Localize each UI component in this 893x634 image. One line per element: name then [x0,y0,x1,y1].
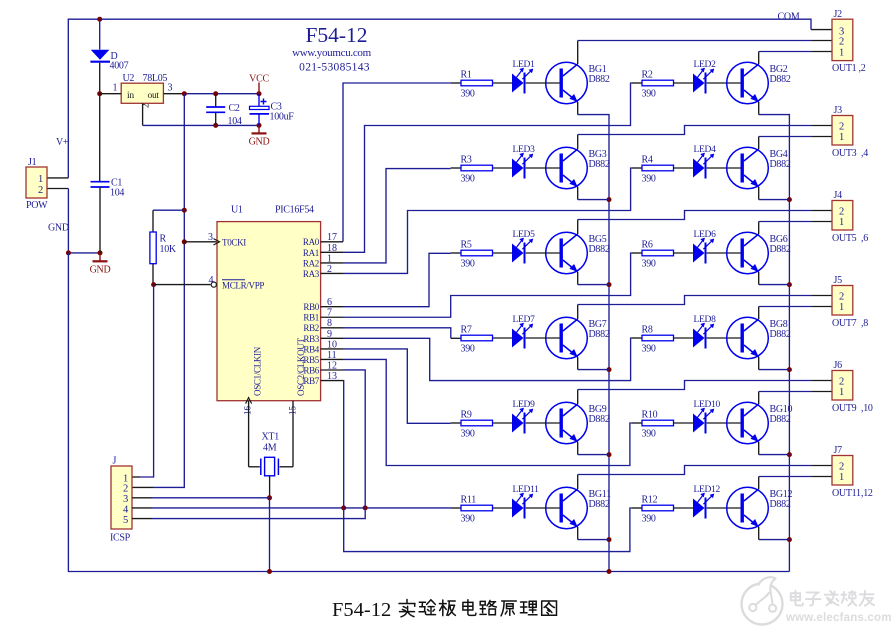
resistor R2 390 [642,70,674,100]
wire: BG4 emitter to bus [759,187,790,200]
node: right bus emitter junction row 6 [787,537,792,542]
svg-text:OUT7: OUT7 [832,318,857,329]
wire: BG1 emitter to bus [577,102,579,115]
svg-text:POW: POW [26,200,48,211]
capacitor C1 104 [91,178,125,199]
ground symbol (below C3) [249,125,270,147]
pin 9 RB3 [303,329,343,344]
wire: C1 bottom [99,187,101,253]
node: bottom rail crystal junction [267,569,272,574]
wire: BG3 emitter to bus [578,187,609,200]
svg-text:16: 16 [243,406,253,416]
LED11 [512,485,539,519]
svg-text:,10: ,10 [861,403,873,414]
node: GND junction left [66,250,71,255]
wire: channel 11 row [493,507,513,509]
wire: BG11 collector to J7 pin2 [578,466,832,490]
svg-text:LED12: LED12 [694,485,721,495]
svg-text:MCLR/VPP: MCLR/VPP [222,280,264,290]
LED1 [512,60,535,94]
svg-text:GND: GND [48,223,69,234]
wire: crystal junction down to bottom rail [269,498,271,572]
pin 13 RB7 [303,371,343,386]
svg-text:D882: D882 [770,74,791,85]
wire: BG2 emitter to bus [758,102,760,115]
transistor BG9 D882 [546,402,610,444]
node: T0CKI junction [182,239,187,244]
connector J6 OUT9,10 [832,360,873,414]
connector J4 OUT5,6 [832,190,868,244]
svg-text:3: 3 [168,83,173,94]
resistor R4 390 [642,155,674,185]
pin 7 RB1 [303,308,343,323]
node: left bus emitter junction row 5 [607,452,612,457]
svg-text:RB1: RB1 [303,313,319,323]
node: ICSP pin3 junction [267,495,272,500]
wire: channel 5 row [493,252,513,254]
wire: BG7 emitter to bus [578,357,609,370]
svg-text:F54-12: F54-12 [332,599,391,621]
wire: VCC vertical trunk to ICSP pin2 [132,94,184,488]
node: right bus emitter junction row 2 [787,197,792,202]
resistor R10 390 [642,410,674,440]
caption CJK char 路 [480,600,496,614]
power symbol VCC [249,74,269,94]
svg-text:,6: ,6 [861,233,868,244]
svg-text:LED10: LED10 [694,400,721,410]
wire: 78L05 pin3 to VCC rail [163,93,184,95]
svg-text:5: 5 [123,515,128,526]
caption CJK char 验 [419,600,435,615]
wire: channel 2 row [674,82,694,84]
LED2 [693,60,716,94]
svg-text:D882: D882 [770,499,791,510]
svg-text:ICSP: ICSP [110,533,131,544]
wire: left border GND down + bottom GND rail [68,253,789,572]
svg-text:,8: ,8 [861,318,868,329]
svg-text:R11: R11 [461,495,477,506]
wire: MCLR vertical to ICSP pin1 [132,285,154,477]
wire: channel 9 row [493,422,513,424]
caption CJK char 电 [463,600,476,616]
caption CJK char 图 [542,601,557,615]
wire: right emitter bus [759,115,790,572]
svg-text:LED8: LED8 [694,315,717,325]
watermark logo (elecfans) [742,577,783,624]
svg-text:www.elecfans.com: www.elecfans.com [785,612,892,624]
LED12 [693,485,721,519]
node: right bus emitter junction row 3 [787,282,792,287]
wire: RA2 to R3 [343,168,461,263]
crystal XT1 4M [249,432,293,476]
wire: BG12 emitter to bus [759,527,790,540]
wire: BG12 collector to J7 pin1 [759,477,832,490]
resistor R12 390 [642,495,674,525]
wire: RA3 to R4 [343,168,642,273]
svg-text:RA3: RA3 [303,269,320,279]
node: right bus emitter junction row 5 [787,452,792,457]
svg-text:D882: D882 [770,329,791,340]
transistor BG1 D882 [546,62,610,104]
wire: channel 8 row [674,337,694,339]
wire: channel 6 row [674,252,694,254]
svg-text:R9: R9 [461,410,472,421]
svg-text:D882: D882 [770,244,791,255]
caption CJK char 板 [439,600,455,616]
LED8 [693,315,716,349]
wire: channel 3 row [493,167,513,169]
transistor BG7 D882 [546,317,610,359]
wire: BG5 emitter to bus [578,272,609,285]
svg-text:78L05: 78L05 [143,73,168,84]
connector J ICSP [110,456,132,544]
svg-text:390: 390 [642,259,656,270]
wire: 78L05 pin2 down to GND rail [143,103,259,125]
svg-text:LED1: LED1 [513,60,536,70]
node: left bus emitter junction row 2 [607,197,612,202]
capacitor C2 104 [206,94,242,127]
resistor R9 390 [461,410,493,440]
svg-text:R2: R2 [642,70,653,81]
LED6 [693,230,716,264]
svg-text:LED4: LED4 [694,145,717,155]
wire: RB6 to ICSP pin5 [132,370,365,519]
wire: BG9 collector to J6 pin2 [578,381,832,405]
svg-text:D882: D882 [589,159,610,170]
svg-text:RA0: RA0 [303,237,320,247]
wire: ICSP pin3 to crystal [132,497,270,499]
wire: J1 pin1 to V+ rail [47,177,68,179]
wire: RA0 to R1 [343,83,461,242]
caption CJK char 理 [520,601,537,615]
svg-text:104: 104 [228,116,242,127]
LED3 [512,145,535,179]
wire: crystal to GND junction [269,476,271,498]
resistor R11 390 [461,495,493,525]
transistor BG10 D882 [727,402,793,444]
caption CJK char 原 [501,601,516,616]
wire: BG7 collector to J5 pin2 [578,296,832,320]
pin 1 RA2 [303,253,343,268]
node: R top junction [182,208,187,213]
resistor R8 390 [642,325,674,355]
svg-text:,12: ,12 [861,488,873,499]
LED10 [693,400,721,434]
svg-text:LED7: LED7 [513,315,536,325]
wire: channel 7 row [493,337,513,339]
svg-text:RB0: RB0 [303,302,319,312]
svg-text:OUT1: OUT1 [832,63,857,74]
wire: RB4 to R9 [343,349,461,423]
pin 11 RB5 [303,350,343,365]
wire: BG4 collector to J3 pin1 [759,137,832,150]
wire: channel 12 row [674,507,694,509]
svg-text:D882: D882 [770,159,791,170]
svg-text:390: 390 [461,259,475,270]
wire: BG8 emitter to bus [759,357,790,370]
svg-text:390: 390 [642,429,656,440]
svg-text:C2: C2 [229,103,240,114]
svg-text:PIC16F54: PIC16F54 [275,205,314,216]
svg-text:in: in [127,91,134,101]
wire: GND horizontal to C1 bottom [68,252,100,254]
svg-text:,4: ,4 [861,148,868,159]
node: 78L05 input junction [97,91,102,96]
svg-text:J5: J5 [834,275,843,286]
resistor R3 390 [461,155,493,185]
wire: RB7 to R12 [343,381,642,552]
wire: RB3 to R8 [343,338,642,381]
wire: BG6 collector to J4 pin1 [759,222,832,235]
pin 17 RA0 [303,232,343,247]
wire: BG5 collector to J4 pin2 [578,211,832,235]
wire: BG6 emitter to bus [759,272,790,285]
wire: BG10 emitter to bus [759,442,790,455]
svg-text:2: 2 [38,185,43,196]
transistor BG4 D882 [727,147,791,189]
LED4 [693,145,716,179]
wire: BG9 emitter to bus [578,442,609,455]
pin 18 RA1 [303,243,343,258]
svg-text:021-53085143: 021-53085143 [299,62,370,74]
LED9 [512,400,535,434]
svg-text:2: 2 [839,206,844,217]
transistor BG12 D882 [727,487,793,529]
svg-text:1: 1 [839,472,844,483]
wire: MCLR to chip [154,284,211,286]
svg-text:OUT9: OUT9 [832,403,857,414]
svg-text:390: 390 [461,514,475,525]
svg-text:D882: D882 [589,244,610,255]
svg-text:1: 1 [839,387,844,398]
svg-text:out: out [148,91,160,101]
svg-text:GND: GND [249,136,270,147]
svg-text:R5: R5 [461,240,472,251]
transistor BG2 D882 [727,62,791,104]
svg-text:J1: J1 [28,157,37,168]
wire: 78L05 pin1 [100,93,122,95]
node: V+ rail / diode junction [97,17,102,22]
svg-text:GND: GND [90,264,111,275]
wire: channel 4 row [674,167,694,169]
node: right bus emitter junction row 4 [787,367,792,372]
LED5 [512,230,535,264]
IC U1 PIC16F54 [208,205,321,401]
wire: ICSP pin4 row6 feed [132,507,461,509]
resistor R7 390 [461,325,493,355]
svg-text:T0CKI: T0CKI [222,237,246,247]
svg-text:1: 1 [123,473,128,484]
pin 16 OSC1/CLKIN [243,346,263,467]
svg-text:390: 390 [642,89,656,100]
svg-text:U1: U1 [231,205,243,216]
wire: top V+ rail [68,19,832,178]
svg-text:1: 1 [839,302,844,313]
wire: RB5 to R10 [343,359,642,465]
svg-text:D882: D882 [589,74,610,85]
wire: T0CKI to chip [184,241,217,243]
svg-text:3: 3 [123,494,128,505]
svg-text:2: 2 [839,291,844,302]
svg-text:OSC1/CLKIN: OSC1/CLKIN [253,346,263,396]
svg-text:OUT3: OUT3 [832,148,857,159]
svg-text:390: 390 [461,429,475,440]
watermark text 电子发烧友 [791,591,803,606]
svg-text:F54-12: F54-12 [305,23,367,47]
svg-text:2: 2 [123,484,128,495]
node: VCC rail junctions [182,91,262,96]
transistor BG3 D882 [546,147,610,189]
svg-text:390: 390 [461,174,475,185]
svg-text:R1: R1 [461,70,472,81]
svg-text:LED9: LED9 [513,400,536,410]
transistor BG6 D882 [727,232,791,274]
svg-text:R6: R6 [642,240,653,251]
svg-text:R8: R8 [642,325,653,336]
node: left bus emitter junction row 6 [607,537,612,542]
wire: J1 pin2 to GND net [47,189,68,253]
wire: BG2 collector to J2 pin1 [759,52,832,65]
pin 8 RB2 [303,318,343,333]
node: cap bottom junctions [213,123,261,128]
svg-text:LED2: LED2 [694,60,717,70]
svg-text:LED5: LED5 [513,230,536,240]
svg-text:RA2: RA2 [303,258,319,268]
wire: BG10 collector to J6 pin1 [759,392,832,405]
regulator U2 78L05 [113,73,173,108]
svg-text:R4: R4 [642,155,653,166]
diode D 4007 [90,19,128,94]
connector J2 OUT1,2 [832,9,866,74]
svg-text:D882: D882 [770,414,791,425]
node: MCLR junction [151,282,156,287]
LED7 [512,315,535,349]
svg-text:COM: COM [778,11,800,22]
svg-text:1: 1 [839,132,844,143]
wire: VCC rail [184,93,259,95]
svg-text:OUT11: OUT11 [832,488,861,499]
svg-text:V+: V+ [56,137,69,148]
transistor BG5 D882 [546,232,610,274]
pin 6 RB0 [303,297,343,312]
svg-text:1: 1 [38,174,43,185]
svg-text:390: 390 [461,89,475,100]
resistor R6 390 [642,240,674,270]
svg-text:R10: R10 [642,410,658,421]
wire: BG11 emitter to bus [578,527,609,540]
wire: BG3 collector to J3 pin2 [578,126,832,150]
pin 15 OSC2/CLKOUT [288,337,307,466]
connector J5 OUT7,8 [832,275,868,329]
svg-text:D882: D882 [589,414,610,425]
node: left bus emitter junction row 3 [607,282,612,287]
svg-text:LED11: LED11 [513,485,540,495]
svg-text:R3: R3 [461,155,472,166]
pin 10 RB4 [303,339,343,354]
svg-text:1: 1 [113,83,118,94]
svg-text:VCC: VCC [249,74,269,85]
svg-text:2: 2 [839,121,844,132]
svg-text:XT1: XT1 [262,432,280,443]
wire: RB2 to R7 [343,328,461,339]
connector J1 [26,157,48,211]
svg-text:RB2: RB2 [303,323,319,333]
pin 12 RB6 [303,360,343,375]
svg-text:3: 3 [208,232,213,243]
svg-text:390: 390 [642,174,656,185]
svg-text:OUT5: OUT5 [832,233,857,244]
svg-text:J6: J6 [834,360,843,371]
node: C1 bottom junction [98,250,103,255]
svg-text:J7: J7 [834,445,843,456]
node: bottom rail left bus junction [607,569,612,574]
svg-text:10K: 10K [160,244,177,255]
svg-text:390: 390 [461,344,475,355]
svg-text:J4: J4 [834,190,843,201]
svg-text:RA1: RA1 [303,248,319,258]
wire: RB1 to R6 [343,253,642,317]
svg-text:104: 104 [110,188,124,199]
ground symbol (below C1) [90,253,111,275]
wire: RA1 to R2 [343,83,642,252]
wire: BG1 collector to J2 pin2 [578,41,832,65]
svg-text:4M: 4M [263,443,277,454]
svg-text:1: 1 [839,47,844,58]
svg-text:LED6: LED6 [694,230,717,240]
svg-text:390: 390 [642,514,656,525]
wire: channel 1 row [493,82,513,84]
resistor R1 390 [461,70,493,100]
svg-text:D882: D882 [589,329,610,340]
svg-text:J: J [113,456,117,467]
wire: left emitter bus [578,115,609,572]
svg-text:2: 2 [839,376,844,387]
svg-text:LED3: LED3 [513,145,536,155]
transistor BG8 D882 [727,317,791,359]
transistor BG11 D882 [546,487,611,529]
node: RB7 junction on row6 wire [341,505,346,510]
capacitor C3 100uF (electrolytic) [250,94,295,126]
svg-text:4: 4 [209,275,214,286]
svg-text:R: R [160,234,167,245]
svg-text:J2: J2 [834,9,843,20]
svg-text:2: 2 [839,37,844,48]
svg-text:100uF: 100uF [270,112,295,123]
wire: RB0 to R5 [343,253,461,307]
svg-text:1: 1 [839,217,844,228]
svg-text:4007: 4007 [110,61,129,72]
pin 2 RA3 [303,264,343,279]
connector J3 OUT3,4 [832,105,868,159]
svg-text:R12: R12 [642,495,658,506]
wire: channel 10 row [674,422,694,424]
resistor R5 390 [461,240,493,270]
connector J7 OUT11,12 [832,445,873,499]
resistor R 10K (pull-up) [150,210,184,284]
wire: C1 top connection [99,94,101,182]
svg-text:U2: U2 [123,73,135,84]
svg-text:,2: ,2 [859,63,866,74]
wire: BG8 collector to J5 pin1 [759,307,832,320]
caption CJK char 实 [399,600,415,617]
svg-text:2: 2 [839,461,844,472]
svg-text:www.youmcu.com: www.youmcu.com [292,47,372,59]
svg-text:OSC2/CLKOUT: OSC2/CLKOUT [296,337,306,396]
svg-text:R7: R7 [461,325,472,336]
node: left bus emitter junction row 4 [607,367,612,372]
svg-text:J3: J3 [834,105,843,116]
svg-text:D882: D882 [589,499,610,510]
